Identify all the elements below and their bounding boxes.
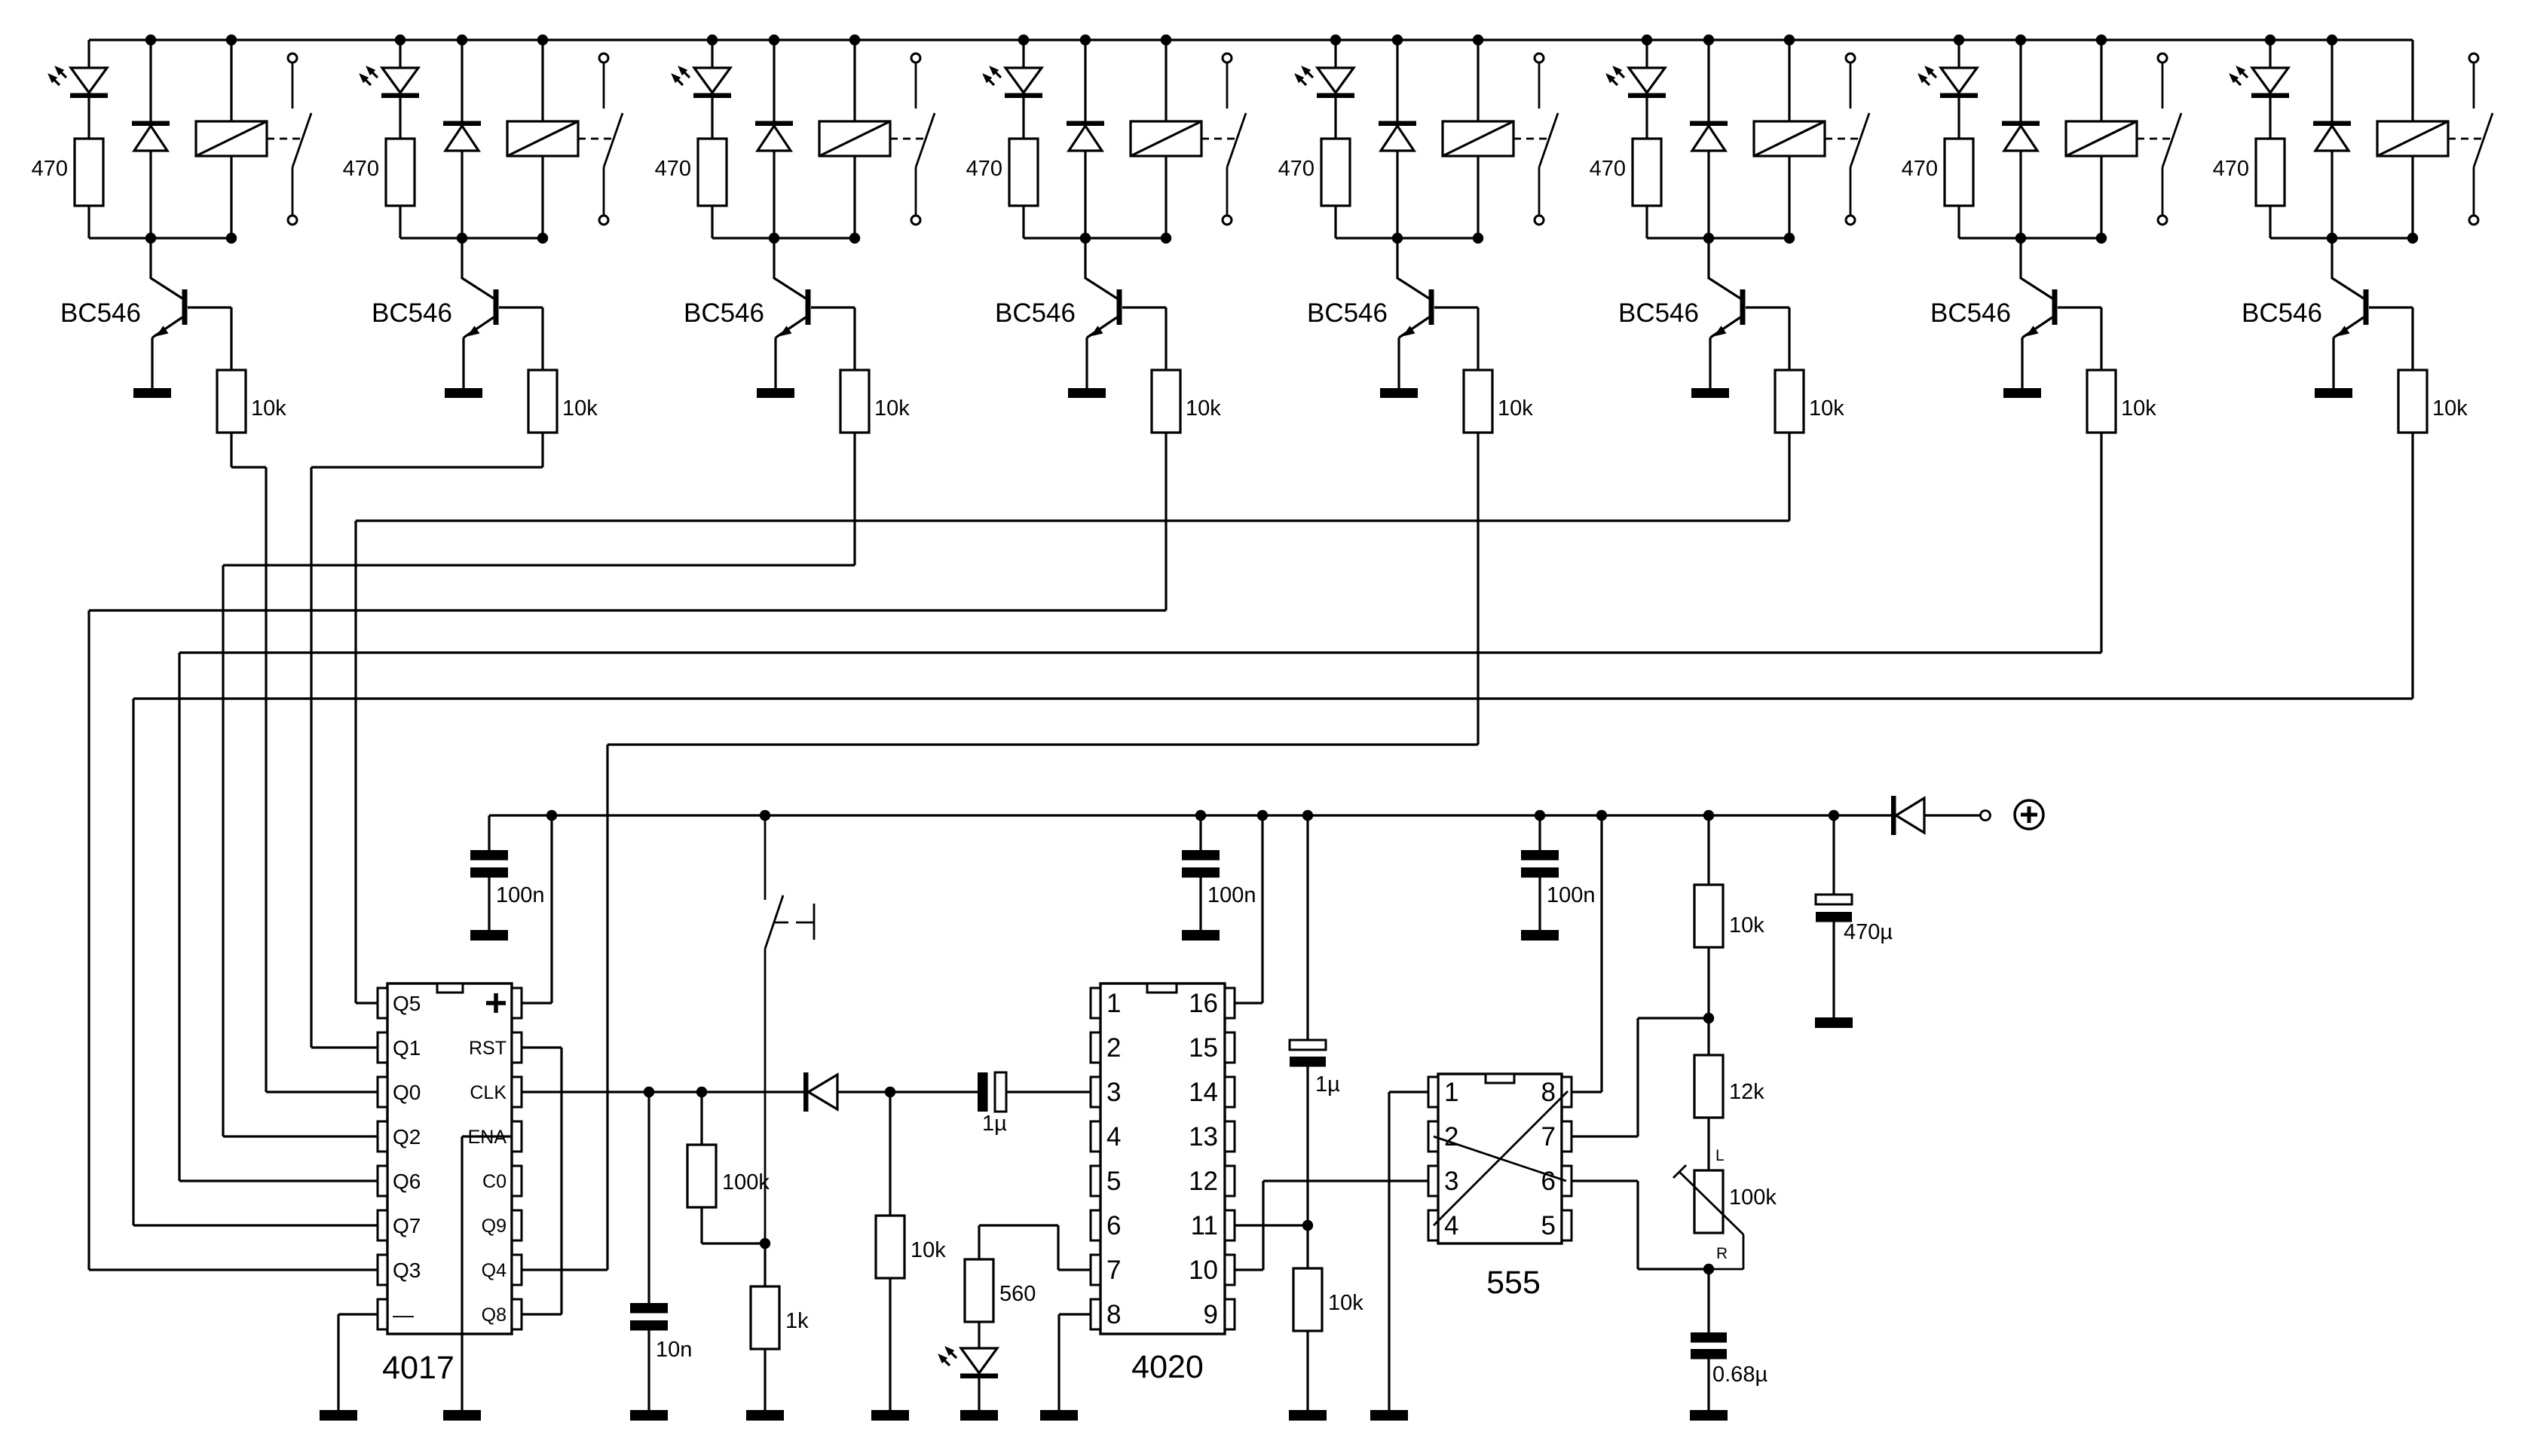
4017 left pin Q3 — [378, 1255, 387, 1285]
junction dot 4020 pin11 — [1302, 1220, 1313, 1231]
svg-text:11: 11 — [1191, 1211, 1218, 1240]
svg-text:10k: 10k — [1186, 396, 1221, 421]
junction dots channel 3 — [707, 35, 718, 45]
svg-text:6: 6 — [1106, 1211, 1121, 1240]
svg-text:555: 555 — [1486, 1265, 1541, 1301]
svg-text:Q4: Q4 — [482, 1260, 507, 1281]
svg-text:L: L — [1715, 1147, 1725, 1164]
svg-text:BC546: BC546 — [995, 298, 1076, 328]
wire route channel 1 to 4017 — [230, 433, 232, 467]
4017 left pin Q7 — [378, 1210, 387, 1240]
ground R18 — [746, 1410, 784, 1421]
resistor R18 1k — [764, 1243, 766, 1286]
resistor R8 470 — [2256, 139, 2285, 206]
555 right pin 8 — [1562, 1077, 1572, 1107]
resistor R4 470 — [1009, 139, 1038, 206]
svg-text:Q8: Q8 — [482, 1305, 507, 1326]
relay K3 coil — [853, 40, 855, 121]
svg-text:1k: 1k — [785, 1309, 809, 1333]
4017 left pin Q1 — [378, 1032, 387, 1063]
4020 right pin 12 — [1225, 1166, 1235, 1196]
LED D7 — [1941, 68, 1977, 93]
capacitor C2 100n (4020 supply) — [1199, 815, 1201, 850]
svg-text:Q6: Q6 — [393, 1170, 421, 1193]
resistor R10 10k base — [528, 370, 557, 433]
svg-text:10k: 10k — [911, 1238, 946, 1262]
transistor Q6 BC546 — [1709, 238, 1740, 298]
svg-text:10k: 10k — [2121, 396, 2156, 421]
4017 left pin Q0 — [378, 1077, 387, 1107]
power rail wire (bottom section) — [489, 814, 1893, 816]
4017 pin label + — [486, 1001, 506, 1005]
wire 555 pin1 to ground — [1389, 1090, 1428, 1093]
supply + terminal symbol — [2015, 800, 2043, 829]
resistor R21 10k — [1306, 1225, 1308, 1268]
flyback diode D10 — [461, 40, 463, 121]
IC U3 555 body — [1438, 1074, 1562, 1243]
bottom rail node channel 4 — [1024, 237, 1166, 239]
svg-text:10k: 10k — [1498, 396, 1533, 421]
svg-text:16: 16 — [1189, 989, 1218, 1018]
ground emitter Q2 — [445, 388, 482, 398]
4020 left pin 2 — [1091, 1032, 1100, 1063]
svg-text:10k: 10k — [1809, 396, 1844, 421]
junction dots channel 5 — [1330, 35, 1341, 45]
relay K2 actuation dashed link — [578, 138, 612, 140]
resistor R19 10k — [889, 1092, 891, 1216]
wire route channel 7 to 4017 — [2100, 433, 2102, 653]
svg-text:7: 7 — [1106, 1256, 1121, 1285]
svg-text:470: 470 — [1278, 157, 1314, 181]
4017 right pin Q4 — [512, 1255, 522, 1285]
wire 4020 pin7 to R20 — [1058, 1268, 1091, 1271]
resistor R5 470 — [1321, 139, 1350, 206]
wire channel 4 LED branch — [1022, 40, 1024, 68]
wire route channel 2 to 4017 — [541, 433, 543, 467]
ground R19 — [871, 1410, 909, 1421]
4017 right pin + — [512, 988, 522, 1018]
wire channel 2 LED branch — [399, 40, 401, 68]
ground 4020 pin8 — [1040, 1410, 1078, 1421]
svg-text:470: 470 — [2213, 157, 2249, 181]
svg-text:10: 10 — [1189, 1256, 1218, 1285]
IC U1 4017 body — [387, 983, 512, 1334]
relay contact switch S8 — [2469, 54, 2478, 63]
bottom rail node channel 5 — [1336, 237, 1478, 239]
relay K8 actuation dashed link — [2448, 138, 2482, 140]
svg-text:4: 4 — [1444, 1211, 1458, 1240]
junction dots channel 6 — [1642, 35, 1652, 45]
svg-text:12: 12 — [1189, 1167, 1218, 1196]
svg-text:Q3: Q3 — [393, 1259, 421, 1282]
svg-text:2: 2 — [1444, 1122, 1458, 1152]
resistor R7 470 — [1945, 139, 1973, 206]
resistor R20 560 — [965, 1259, 993, 1322]
flyback diode D16 — [2331, 40, 2333, 121]
4017 right pin C0 — [512, 1166, 522, 1196]
junction dots channel 7 — [1954, 35, 1964, 45]
relay contact switch S7 — [2158, 54, 2167, 63]
4020 right pin 9 — [1225, 1299, 1235, 1329]
4020 left pin 6 — [1091, 1210, 1100, 1240]
svg-text:7: 7 — [1541, 1122, 1556, 1152]
555 internal link pin4-pin8 — [1434, 1091, 1568, 1225]
transistor Q7 BC546 — [2021, 238, 2052, 298]
svg-text:1: 1 — [1106, 989, 1121, 1018]
LED D6 — [1629, 68, 1665, 93]
transistor Q2 BC546 — [462, 238, 494, 298]
bottom rail node channel 8 — [2270, 237, 2413, 239]
ground C7 — [1690, 1410, 1728, 1421]
4020 left pin 1 — [1091, 988, 1100, 1018]
svg-text:R: R — [1716, 1245, 1728, 1262]
svg-text:10k: 10k — [1328, 1291, 1363, 1315]
svg-text:2: 2 — [1106, 1033, 1121, 1063]
LED D4 — [1005, 68, 1042, 93]
relay K4 coil — [1165, 40, 1167, 121]
svg-text:15: 15 — [1189, 1033, 1218, 1063]
relay K5 actuation dashed link — [1513, 138, 1547, 140]
4020 right pin 16 — [1225, 988, 1235, 1018]
4017 right pin Q8 — [512, 1299, 522, 1329]
capacitor C5 1u (coupling) — [978, 1072, 988, 1112]
wire channel 8 LED branch — [2269, 40, 2271, 68]
relay K5 coil — [1477, 40, 1479, 121]
4020 left pin 8 — [1091, 1299, 1100, 1329]
flyback diode D14 — [1707, 40, 1709, 121]
svg-text:BC546: BC546 — [2242, 298, 2322, 328]
svg-text:4: 4 — [1106, 1122, 1121, 1152]
svg-text:Q9: Q9 — [482, 1216, 507, 1237]
svg-text:BC546: BC546 — [1618, 298, 1699, 328]
wire 555 pin7 to divider — [1572, 1135, 1638, 1137]
wire 4017 - pin to ground — [338, 1313, 378, 1315]
relay contact switch S4 — [1223, 54, 1232, 63]
wire 4020 pin16 to rail — [1235, 1002, 1262, 1004]
wire 4020 pin10 to 555 pin3 — [1235, 1268, 1263, 1271]
relay K2 coil — [541, 40, 543, 121]
svg-text:470: 470 — [343, 157, 379, 181]
svg-text:BC546: BC546 — [684, 298, 764, 328]
svg-text:0.68µ: 0.68µ — [1712, 1363, 1767, 1387]
4017 left pin Q2 — [378, 1121, 387, 1152]
junction dot reset node — [760, 1238, 770, 1249]
relay contact switch S3 — [911, 54, 920, 63]
resistor R3 470 — [698, 139, 727, 206]
capacitor C4 10n — [647, 1092, 650, 1303]
LED D18 — [978, 1322, 980, 1348]
ground emitter Q1 — [133, 388, 171, 398]
svg-text:4017: 4017 — [382, 1350, 454, 1386]
junction dots channel 1 — [145, 35, 156, 45]
transistor Q4 BC546 — [1085, 238, 1117, 298]
flyback diode D9 — [149, 40, 151, 121]
4017 left pin &#8212; — [378, 1299, 387, 1329]
ground emitter Q8 — [2315, 388, 2352, 398]
ground 4017 ENA — [443, 1410, 481, 1421]
relay K4 actuation dashed link — [1201, 138, 1235, 140]
svg-text:Q1: Q1 — [393, 1036, 421, 1060]
4017 right pin CLK — [512, 1077, 522, 1107]
4017 right pin RST — [512, 1032, 522, 1063]
svg-text:1µ: 1µ — [1315, 1072, 1340, 1097]
wire channel 7 LED branch — [1957, 40, 1960, 68]
svg-text:CLK: CLK — [470, 1082, 507, 1103]
transistor Q5 BC546 — [1397, 238, 1429, 298]
svg-text:Q7: Q7 — [393, 1214, 421, 1237]
svg-text:3: 3 — [1444, 1167, 1458, 1196]
wire channel 3 LED branch — [711, 40, 713, 68]
ground C8 — [1815, 1017, 1853, 1028]
svg-text:9: 9 — [1204, 1300, 1218, 1329]
bottom rail node channel 2 — [400, 237, 543, 239]
4020 right pin 10 — [1225, 1255, 1235, 1285]
wire 4017 CLK line — [522, 1090, 806, 1093]
LED D3 — [694, 68, 730, 93]
junction dots channel 2 — [395, 35, 406, 45]
svg-text:10k: 10k — [1729, 913, 1764, 938]
relay contact switch S6 — [1846, 54, 1855, 63]
ground D18 — [960, 1410, 998, 1421]
LED D5 — [1318, 68, 1354, 93]
4017 left pin Q6 — [378, 1166, 387, 1196]
top supply rail wire — [89, 38, 2413, 41]
LED D2 — [382, 68, 418, 93]
wire route channel 4 to 4017 — [1165, 433, 1167, 610]
relay K6 actuation dashed link — [1825, 138, 1859, 140]
svg-text:470: 470 — [32, 157, 68, 181]
ground emitter Q6 — [1691, 388, 1729, 398]
svg-text:470: 470 — [655, 157, 691, 181]
relay K1 coil — [230, 40, 232, 121]
IC U2 4020 body — [1100, 983, 1225, 1334]
wire 4017 ENA to ground — [462, 1135, 512, 1137]
resistor R14 10k base — [1775, 370, 1804, 433]
capacitor C6 1u (pin11) — [1306, 815, 1308, 1040]
wire 4020 pin8 to ground — [1059, 1313, 1091, 1315]
4020 right pin 15 — [1225, 1032, 1235, 1063]
wire channel 6 LED branch — [1645, 40, 1648, 68]
svg-text:13: 13 — [1189, 1122, 1218, 1152]
flyback diode D13 — [1396, 40, 1398, 121]
bottom rail node channel 3 — [712, 237, 855, 239]
svg-text:100n: 100n — [1207, 883, 1256, 907]
svg-text:100n: 100n — [496, 883, 545, 907]
capacitor C7 0.68u — [1707, 1269, 1709, 1332]
svg-text:100n: 100n — [1547, 883, 1596, 907]
bottom rail node channel 7 — [1959, 237, 2101, 239]
svg-text:560: 560 — [999, 1282, 1036, 1306]
bottom rail node channel 6 — [1647, 237, 1789, 239]
svg-text:1µ: 1µ — [982, 1112, 1007, 1136]
transistor Q1 BC546 — [151, 238, 182, 298]
junction dot CLK/100k — [696, 1087, 707, 1097]
svg-text:—: — — [393, 1303, 414, 1326]
svg-text:10n: 10n — [656, 1338, 692, 1362]
diode D17 (clock line) — [803, 1072, 809, 1112]
junction dot diode/10k — [885, 1087, 895, 1097]
svg-text:BC546: BC546 — [60, 298, 141, 328]
wire 4017 + pin to rail — [522, 1002, 552, 1004]
resistor R13 10k base — [1464, 370, 1492, 433]
ground 555 pin1 — [1370, 1410, 1408, 1421]
resistor R16 10k base — [2398, 370, 2427, 433]
junction dots power rail — [546, 810, 557, 821]
555 right pin 6 — [1562, 1166, 1572, 1196]
555 left pin 2 — [1428, 1121, 1438, 1152]
resistor R9 10k base — [217, 370, 246, 433]
flyback diode D12 — [1084, 40, 1086, 121]
wire 4020 pin11 node — [1235, 1224, 1308, 1226]
svg-text:10k: 10k — [251, 396, 286, 421]
resistor R2 470 — [386, 139, 415, 206]
wire 555 pin8 to rail — [1572, 1090, 1602, 1093]
555 internal link pin2-pin6 — [1434, 1136, 1566, 1181]
capacitor C8 470u — [1832, 815, 1835, 895]
relay K7 coil — [2100, 40, 2102, 121]
junction dot pot bottom — [1703, 1264, 1714, 1274]
ground R21 — [1289, 1410, 1327, 1421]
4020 left pin 7 — [1091, 1255, 1100, 1285]
ground emitter Q4 — [1068, 388, 1106, 398]
555 right pin 7 — [1562, 1121, 1572, 1152]
wire channel 1 LED branch — [87, 40, 90, 68]
resistor R15 10k base — [2087, 370, 2116, 433]
relay K8 coil — [2411, 40, 2413, 121]
relay K6 coil — [1788, 40, 1790, 121]
flyback diode D11 — [773, 40, 775, 121]
ground emitter Q7 — [2003, 388, 2041, 398]
junction dots channel 4 — [1018, 35, 1029, 45]
svg-text:470: 470 — [1902, 157, 1938, 181]
svg-text:BC546: BC546 — [1307, 298, 1388, 328]
svg-text:5: 5 — [1106, 1167, 1121, 1196]
wire 555 pin6 to pot node — [1572, 1179, 1638, 1182]
svg-text:100k: 100k — [722, 1170, 770, 1194]
capacitor C1 100n (4017 supply) — [488, 815, 490, 850]
svg-text:14: 14 — [1189, 1078, 1218, 1107]
555 left pin 3 — [1428, 1166, 1438, 1196]
svg-text:8: 8 — [1541, 1078, 1556, 1107]
transistor Q8 BC546 — [2332, 238, 2364, 298]
svg-text:C0: C0 — [482, 1171, 507, 1192]
relay K3 actuation dashed link — [890, 138, 924, 140]
svg-text:Q5: Q5 — [393, 992, 421, 1015]
svg-text:3: 3 — [1106, 1078, 1121, 1107]
4020 left pin 3 — [1091, 1077, 1100, 1107]
svg-text:BC546: BC546 — [372, 298, 452, 328]
LED D1 — [71, 68, 107, 93]
resistor R6 470 — [1633, 139, 1661, 206]
svg-text:10k: 10k — [874, 396, 910, 421]
svg-text:10k: 10k — [562, 396, 598, 421]
555 left pin 1 — [1428, 1077, 1438, 1107]
4017 right pin ENA — [512, 1121, 522, 1152]
svg-text:470µ: 470µ — [1844, 920, 1893, 944]
transistor Q3 BC546 — [774, 238, 806, 298]
svg-text:4020: 4020 — [1131, 1349, 1204, 1385]
wire route channel 6 to 4017 — [1788, 433, 1790, 521]
resistor R11 10k base — [840, 370, 869, 433]
ground emitter Q3 — [757, 388, 794, 398]
bottom rail node channel 1 — [89, 237, 231, 239]
capacitor C3 100n (555 supply) — [1538, 815, 1541, 850]
4020 left pin 4 — [1091, 1121, 1100, 1152]
svg-text:RST: RST — [469, 1038, 507, 1059]
relay contact switch S5 — [1535, 54, 1544, 63]
svg-text:470: 470 — [1590, 157, 1626, 181]
wire channel 5 LED branch — [1334, 40, 1336, 68]
wire route channel 5 to 4017 — [1477, 433, 1479, 745]
resistor R17 100k — [700, 1092, 702, 1145]
relay contact switch S1 — [288, 54, 297, 63]
4017 right pin Q9 — [512, 1210, 522, 1240]
resistor R23 12k — [1707, 1018, 1709, 1055]
555 left pin 4 — [1428, 1210, 1438, 1240]
svg-text:BC546: BC546 — [1930, 298, 2011, 328]
relay K7 actuation dashed link — [2137, 138, 2171, 140]
junction dots channel 8 — [2265, 35, 2276, 45]
ground 4017 - — [320, 1410, 357, 1421]
wire 4017 RST to Q8 — [522, 1046, 562, 1048]
svg-text:12k: 12k — [1729, 1080, 1764, 1104]
svg-text:5: 5 — [1541, 1211, 1556, 1240]
555 right pin 5 — [1562, 1210, 1572, 1240]
svg-text:470: 470 — [966, 157, 1002, 181]
svg-text:10k: 10k — [2432, 396, 2468, 421]
resistor R22 10k (555) — [1707, 815, 1709, 885]
junction dot CLK/10n — [644, 1087, 654, 1097]
resistor R12 10k base — [1152, 370, 1180, 433]
svg-text:6: 6 — [1541, 1167, 1556, 1196]
terminal circle supply input — [1981, 811, 1991, 821]
svg-text:Q2: Q2 — [393, 1125, 421, 1149]
4020 left pin 5 — [1091, 1166, 1100, 1196]
potentiometer P1 100k — [1694, 1170, 1723, 1233]
4017 left pin Q5 — [378, 988, 387, 1018]
resistor R1 470 — [75, 139, 103, 206]
diode D19 (supply input) — [1891, 796, 1896, 835]
svg-text:1: 1 — [1444, 1078, 1458, 1107]
svg-text:8: 8 — [1106, 1300, 1121, 1329]
LED D8 — [2252, 68, 2288, 93]
4020 right pin 11 — [1225, 1210, 1235, 1240]
svg-text:Q0: Q0 — [393, 1081, 421, 1104]
ground C4 — [630, 1410, 668, 1421]
pushbutton S9 reset — [764, 815, 767, 900]
4020 right pin 13 — [1225, 1121, 1235, 1152]
flyback diode D15 — [2019, 40, 2021, 121]
relay K1 actuation dashed link — [267, 138, 301, 140]
svg-text:100k: 100k — [1729, 1185, 1777, 1210]
relay contact switch S2 — [599, 54, 608, 63]
wire route channel 3 to 4017 — [853, 433, 855, 565]
4020 right pin 14 — [1225, 1077, 1235, 1107]
wire route channel 8 to 4017 — [2411, 433, 2413, 699]
ground emitter Q5 — [1380, 388, 1418, 398]
junction dot divider — [1703, 1013, 1714, 1023]
